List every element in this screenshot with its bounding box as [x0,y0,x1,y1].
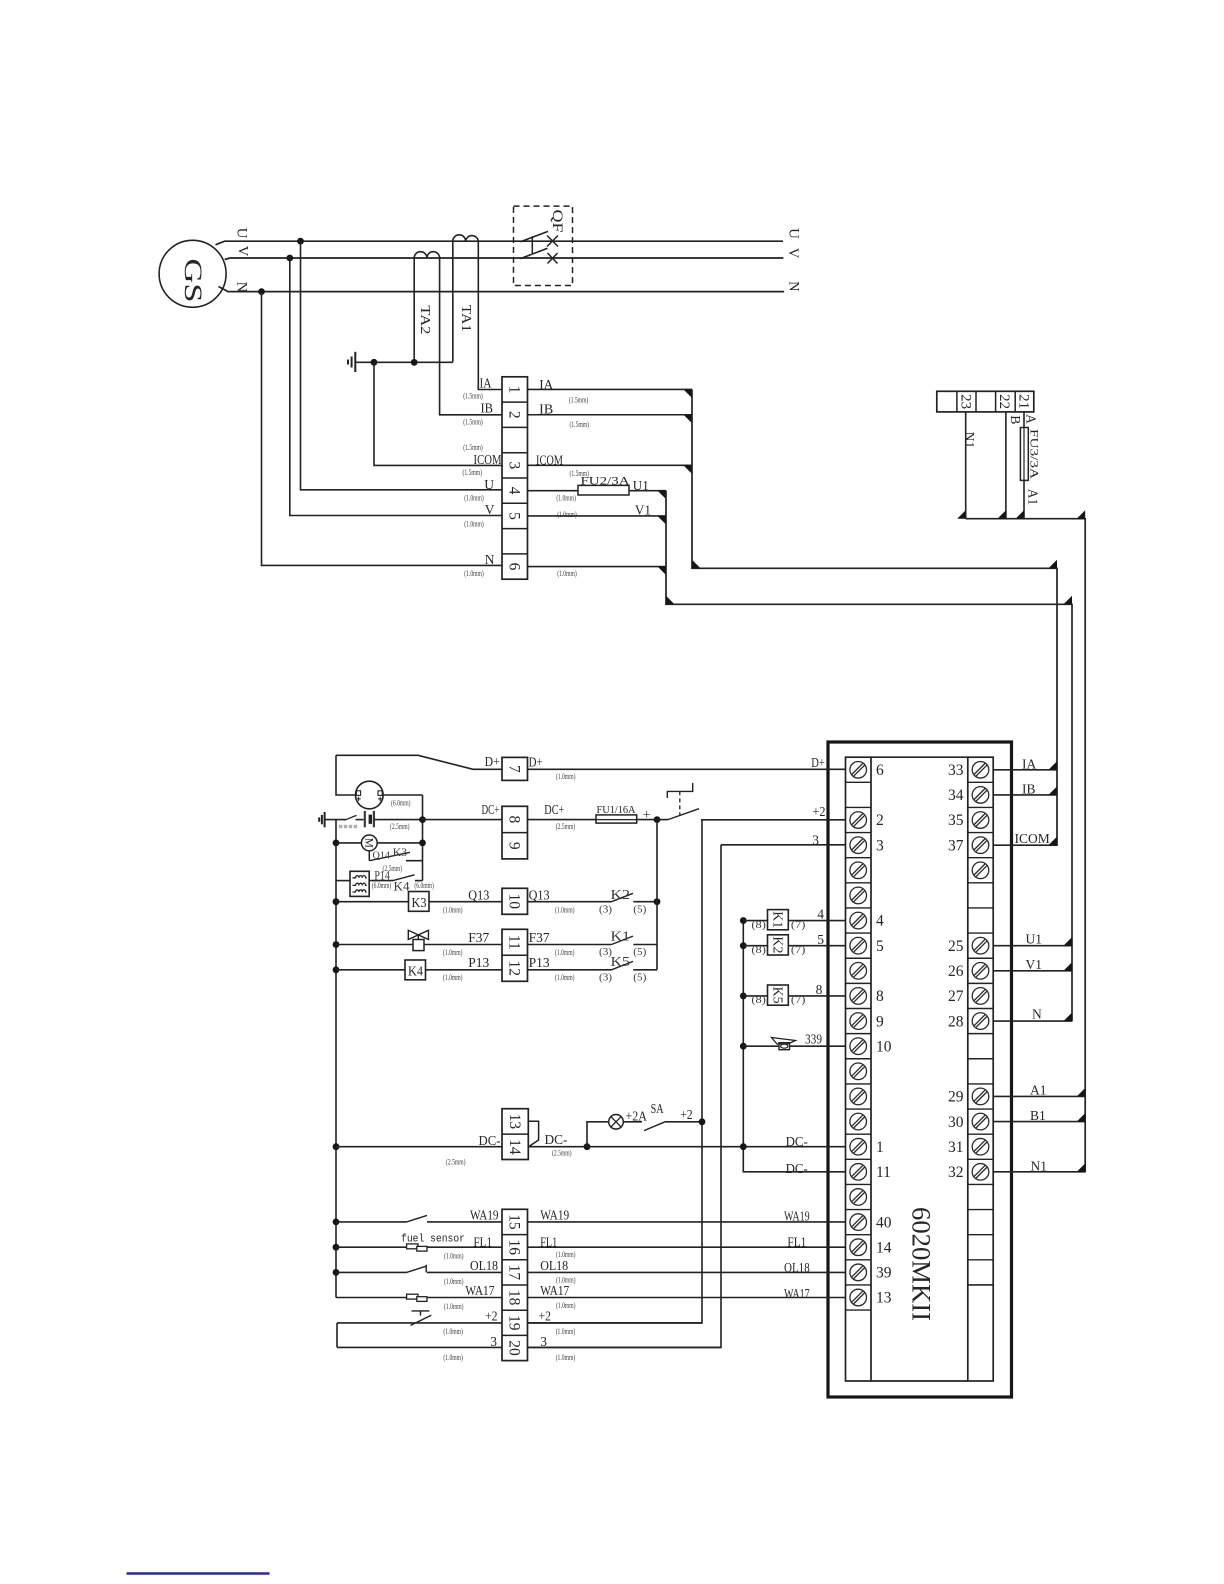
svg-text:(8): (8) [751,920,766,931]
bus +2 vertical drop [528,820,703,1323]
svg-text:OL18: OL18 [784,1260,810,1275]
svg-text:(1.0mm): (1.0mm) [444,1302,464,1311]
svg-text:U: U [785,228,801,239]
harness exit triangle IB [1049,786,1058,795]
svg-text:ICOM: ICOM [1015,831,1050,846]
wire switch to +2 node [701,819,846,821]
node N-tap junction [258,288,265,295]
wire DC+ to block 8 [423,819,503,821]
oil pressure switch OL18 blade [407,1266,427,1272]
node V-tap junction [286,255,293,262]
svg-text:IB: IB [481,401,494,416]
harness join triangle IB [684,415,693,424]
wire CT common ground bus [355,361,453,363]
wire fuse to corner A1 [1023,480,1025,518]
svg-text:18: 18 [506,1290,523,1306]
svg-text:D+: D+ [811,755,825,770]
svg-text:9: 9 [506,842,523,850]
svg-text:6: 6 [506,563,523,571]
controller terminal strip left column [846,757,872,1381]
terminal strip 21-23 [937,391,1034,412]
wire N to harness [528,566,667,568]
svg-text:K2: K2 [770,936,785,953]
svg-text:27: 27 [948,988,964,1005]
controller screw terminal 39 [850,1264,867,1281]
svg-text:OL18: OL18 [540,1258,568,1273]
wire K4 coil to block 12 [426,969,503,971]
contact K2 blade [612,893,634,901]
svg-text:F37: F37 [468,930,489,945]
wire to relay K3 coil [336,901,409,903]
svg-text:+2: +2 [680,1107,693,1122]
svg-text:FL1: FL1 [540,1234,557,1249]
wire switch to battery [356,819,364,821]
svg-text:7: 7 [506,765,523,773]
wire block 12 to contact K5 [528,969,612,971]
controller screw terminal 30 [972,1113,989,1130]
fuse FU2/3A [578,485,629,495]
harness exit triangle V1 [1064,962,1073,971]
svg-text:(8): (8) [751,995,766,1006]
wire DC- from block [528,1146,845,1148]
svg-text:10: 10 [506,894,523,910]
wire lamp to switch SA [623,1121,642,1123]
harness join triangle ICOM [684,465,693,474]
svg-text:3: 3 [490,1334,497,1349]
svg-text:WA19: WA19 [784,1209,810,1224]
generator GS [159,240,226,307]
wire V1 to harness [528,515,667,517]
svg-text:1: 1 [506,386,523,394]
contact K1 blade [612,936,634,944]
controller screw terminal 4 [850,912,867,929]
wire relay K5 to controller [788,995,845,997]
wire WA19 block to controller 40 [528,1221,846,1223]
svg-text:29: 29 [948,1089,964,1106]
bus DC- relay coils vertical [743,921,845,1172]
svg-text:U: U [233,228,249,239]
svg-text:K1: K1 [611,928,631,943]
svg-text:30: 30 [948,1114,964,1131]
switch SA blade [644,1122,665,1131]
fuse FU1/16A [596,815,637,823]
wire ICOM to harness [528,464,693,466]
svg-text:U: U [484,477,494,492]
controller screw terminal 35 [972,812,989,829]
ground symbol CT common [354,352,356,372]
emergency stop actuator [667,783,692,798]
node +2 bus junction [699,1118,706,1125]
wire B from terminal 22 [1005,412,1007,519]
harness corner triangle [692,560,701,569]
svg-text:(1.0mm): (1.0mm) [556,1301,576,1310]
harness IA/IB/ICOM run [692,389,1057,845]
wire DC+ to fuse FU1 [528,819,597,821]
node OL18 row left [333,1269,340,1276]
svg-text:IA: IA [1022,756,1036,771]
wire contact K4 to battery drop [415,880,423,882]
wire block 11 to contact K1 [528,944,612,946]
controller screw terminal 28 [972,1013,989,1030]
node battery positive junction [419,816,426,823]
terminal block 11-12 [502,929,528,981]
svg-text:ICOM: ICOM [536,452,563,467]
fuel level sender symbol [407,1244,418,1249]
controller screw terminal 3 [850,837,867,854]
svg-text:FU1/16A: FU1/16A [597,805,636,816]
svg-text:K3: K3 [393,845,408,859]
svg-text:U1: U1 [1026,932,1043,947]
ground symbol battery negative [324,812,326,827]
svg-text:(6.0mm): (6.0mm) [372,881,392,890]
svg-text:28: 28 [948,1013,964,1030]
terminal block 8-9 [502,806,528,859]
svg-text:DC+: DC+ [544,802,564,817]
svg-text:(5): (5) [633,904,647,915]
wire to starter motor [336,842,362,844]
node DC- relay bus junction [740,1143,747,1150]
svg-text:22: 22 [996,394,1012,409]
wire terminal 13 jumper to DC- [528,1121,538,1146]
wire relay K1 to controller [788,920,845,922]
svg-text:14: 14 [506,1139,523,1155]
wire battery positive to node [375,819,423,821]
svg-text:(1.0mm): (1.0mm) [443,973,463,982]
svg-text:N: N [785,281,801,292]
controller screw terminal 14 [850,1239,867,1256]
svg-text:IB: IB [1022,782,1036,797]
svg-text:(2.5mm): (2.5mm) [390,822,410,831]
wire K3 coil to block 10 [429,901,502,903]
terminal block 13-14 [502,1109,528,1160]
controller screw terminal (unlabeled left row 8) [850,963,867,980]
temperature switch WA19 blade [407,1215,427,1222]
svg-text:Q13: Q13 [468,887,489,902]
svg-text:FL1: FL1 [474,1234,493,1249]
node ICOM tap [371,359,378,366]
svg-text:V: V [234,246,250,257]
battery disconnect switch blade [345,815,357,820]
fuel solenoid valve bowtie [408,930,428,939]
relay coil K2 [768,935,789,955]
svg-text:5: 5 [876,938,884,955]
wire bus to relay K5 coil [743,995,767,997]
wire B1 controller to harness [993,1121,1085,1123]
node bus K1 row [740,917,747,924]
controller screw terminal (unlabeled left row 5) [850,887,867,904]
svg-text:V1: V1 [1026,957,1043,972]
bus + contacts vertical [656,820,658,970]
wire row 19-20 link [336,1323,338,1348]
wire A1 controller to harness [993,1095,1085,1097]
svg-text:21: 21 [1015,394,1031,409]
svg-text:DC+: DC+ [482,802,500,817]
svg-text:N1: N1 [1031,1158,1048,1173]
svg-text:35: 35 [948,812,964,829]
svg-text:33: 33 [948,762,964,779]
svg-text:3: 3 [876,837,884,854]
charging alternator circle [356,781,384,809]
pushbutton blade row 19 [411,1315,432,1325]
svg-text:(1.0mm): (1.0mm) [555,973,575,982]
node TA2 lead junction [411,359,418,366]
starter motor M [361,835,377,851]
svg-text:32: 32 [948,1164,964,1181]
svg-text:(1.0mm): (1.0mm) [444,1252,464,1261]
svg-text:(1.5mm): (1.5mm) [570,420,590,429]
svg-text:(1.0mm): (1.0mm) [555,948,575,957]
svg-text:+2: +2 [485,1309,498,1324]
wire motor to battery node [377,842,422,844]
wire bus to horn [743,1045,779,1047]
bus 3 vertical drop [528,845,722,1348]
contact K3 blade (Q14) [369,852,410,860]
wire WA17 row (bus end) [336,1297,502,1299]
controller left column cell dividers [846,781,872,783]
harness U1/V1/N run [666,491,1072,1022]
left common bus (engine body) [335,820,337,1298]
controller screw terminal 26 [972,963,989,980]
svg-text:SA: SA [651,1101,664,1116]
wire lamp riser [587,1122,609,1147]
svg-text:3: 3 [812,832,819,847]
svg-text:DC-: DC- [479,1133,501,1148]
controller 6020MKII outer box [828,742,1012,1397]
wire WA19 switch [336,1221,407,1223]
contact K4 blade [393,875,415,881]
node bus horn row [740,1043,747,1050]
contact K5 blade [612,961,634,969]
svg-text:11: 11 [876,1164,891,1181]
svg-text:8: 8 [506,816,523,824]
controller right column cell dividers [968,781,993,783]
controller screw terminal (unlabeled left row 17) [850,1189,867,1206]
wire OL18 switch [336,1271,407,1273]
controller screw terminal 32 [972,1164,989,1181]
wire U tap down to terminal 4 [262,241,503,565]
starter contact Q14/K3 stub [368,851,370,861]
battery GB plates [364,811,366,827]
relay coil K1 [768,910,789,930]
svg-text:5: 5 [506,512,523,520]
svg-text:2: 2 [876,812,884,829]
svg-text:20: 20 [506,1340,523,1356]
svg-text:339: 339 [805,1032,822,1047]
svg-text:D+: D+ [529,755,543,770]
svg-text:+: + [643,808,651,823]
wire fuel sensor left [336,1246,502,1248]
controller screw terminal 34 [972,787,989,804]
wire to relay K4 coil [336,969,405,971]
breaker QF pole 2 X contact [548,253,558,264]
svg-text:31: 31 [948,1139,964,1156]
wire +2 row 19 left with pushbutton [337,1322,502,1324]
svg-text:fuel sensor: fuel sensor [401,1234,465,1246]
node bus K5 row [740,993,747,1000]
wire alternator B+ to battery node [382,794,422,796]
controller screw terminal 9 [850,1013,867,1030]
svg-text:K2: K2 [611,887,631,902]
svg-text:(1.0mm): (1.0mm) [464,520,484,529]
node DC- left bus [333,1143,340,1150]
svg-text:(1.0mm): (1.0mm) [443,906,463,915]
svg-text:P13: P13 [468,955,489,970]
harness corner triangle [666,596,675,605]
relay coil K5 [768,985,789,1005]
node M row left [333,840,340,847]
relay coil K3 [409,892,430,912]
wire FL1 block to controller 14 [528,1246,846,1248]
wire 3 row 20 left [337,1346,502,1348]
controller screw terminal 1 [850,1138,867,1155]
svg-text:(3): (3) [599,904,613,915]
svg-text:IA: IA [480,376,492,391]
battery switch caption (Chinese) [339,825,342,828]
svg-text:23: 23 [957,394,973,409]
svg-text:40: 40 [876,1214,892,1231]
node DC- lamp tap [584,1143,591,1150]
node battery positive / motor [419,840,426,847]
svg-text:N: N [1032,1007,1042,1022]
wire block 10 to contact K2 [528,901,612,903]
svg-text:(6.0mm): (6.0mm) [414,881,434,890]
wire contact K2 to bus [633,901,657,903]
controller screw terminal 37 [972,837,989,854]
wire D+ to controller terminal 6 [528,768,846,770]
node WA19 row left [333,1219,340,1226]
svg-text:(1.0mm): (1.0mm) [556,772,576,781]
wire N1 controller to harness [993,1171,1085,1173]
svg-text:(1.5mm): (1.5mm) [463,392,483,401]
svg-text:(7): (7) [791,995,806,1006]
svg-text:(1.0mm): (1.0mm) [557,510,577,519]
wire battery positive drop [422,795,424,881]
svg-text:WA17: WA17 [540,1283,569,1298]
controller screw terminal (unlabeled right row 4) [972,862,989,879]
svg-text:DC-: DC- [545,1132,568,1147]
wire relay K2 to controller [788,945,845,947]
wire glow plugs right lead [369,880,393,882]
wire IB controller to harness [993,794,1057,796]
svg-text:13: 13 [876,1290,892,1307]
svg-text:P13: P13 [529,955,550,970]
wire WA17 block to controller 13 [528,1297,846,1299]
wire bus to relay K1 coil [743,920,767,922]
svg-text:(3): (3) [599,972,613,983]
svg-text:10: 10 [876,1038,892,1055]
svg-text:(1.0mm): (1.0mm) [556,1327,576,1336]
svg-text:N: N [485,552,495,567]
svg-text:A: A [1024,414,1039,424]
svg-text:WA19: WA19 [470,1208,499,1223]
node P13 row left [333,966,340,973]
svg-text:4: 4 [876,913,884,930]
svg-text:(1.0mm): (1.0mm) [556,1353,576,1362]
wire contact to battery drop [406,860,423,862]
node bus K2 row [740,942,747,949]
terminal block 10 [502,888,528,914]
svg-text:(1.0mm): (1.0mm) [557,569,577,578]
node FL1 row left [333,1244,340,1251]
controller screw terminal (unlabeled left row 12) [850,1063,867,1080]
harness exit triangle U1 [1064,937,1073,946]
controller screw terminal 13 [850,1289,867,1306]
wire IA controller to harness [993,769,1057,771]
svg-text:DC-: DC- [786,1134,809,1149]
harness exit triangle ICOM [1049,837,1058,846]
svg-text:(1.5mm): (1.5mm) [463,443,483,452]
svg-text:1: 1 [876,1139,884,1156]
strip top connector line [871,756,968,758]
current transformer TA1 [453,235,479,241]
horn 339 [779,1043,790,1050]
svg-text:DC-: DC- [786,1161,809,1176]
svg-text:15: 15 [506,1214,523,1230]
svg-text:OL18: OL18 [470,1258,498,1273]
svg-text:WA17: WA17 [465,1283,494,1298]
svg-text:9: 9 [876,1013,884,1030]
svg-text:WA19: WA19 [540,1208,569,1223]
node K2 bus junction [654,898,661,905]
controller screw terminal 40 [850,1214,867,1231]
wire V1 controller to harness [993,970,1072,972]
svg-text:12: 12 [506,961,523,977]
node + junction [654,816,661,823]
controller screw terminal 33 [972,761,989,778]
wire V phase from generator [225,258,784,260]
svg-text:V: V [485,502,495,517]
wire fuse to harness U1 [629,490,666,492]
wire DC- to block 14 [336,1146,502,1148]
fuel valve actuator box [413,940,424,951]
wire bus to relay K2 coil [743,945,767,947]
terminal block 15-20 [502,1209,528,1360]
circuit breaker QF dashed enclosure [514,206,573,285]
fuse FU3/3A vertical [1020,428,1028,481]
svg-text:U1: U1 [633,478,649,493]
svg-text:17: 17 [506,1265,523,1281]
controller screw terminal 6 [850,761,867,778]
svg-text:11: 11 [506,935,523,950]
svg-text:(2.5mm): (2.5mm) [556,822,576,831]
harness corner triangle [1049,560,1058,569]
svg-text:K5: K5 [770,987,785,1004]
wire ICOM controller to harness [993,844,1057,846]
wire U1 controller to harness [993,945,1072,947]
controller screw terminal (unlabeled left row 13) [850,1088,867,1105]
svg-text:WA17: WA17 [784,1286,810,1301]
wire OL18 block to controller 39 [528,1271,846,1273]
wire charge alternator D+ lead [336,755,356,795]
svg-text:N1: N1 [962,432,977,449]
wire 3 from bus to terminal 3 [721,844,846,846]
wire battery negative [325,819,346,821]
svg-text:26: 26 [948,963,964,980]
svg-text:(1.0mm): (1.0mm) [556,1276,576,1285]
svg-text:(8): (8) [751,945,766,956]
svg-text:(1.0mm): (1.0mm) [464,569,484,578]
harness join triangle U1 [658,491,667,500]
wire N phase from generator [219,287,785,292]
svg-text:(5): (5) [633,947,647,958]
harness join triangle V1 [658,516,667,525]
controller terminal strip right column [968,757,993,1381]
corner triangle A1 [1016,510,1025,519]
svg-text:3: 3 [540,1334,547,1349]
svg-text:FU2/3A: FU2/3A [581,475,631,487]
svg-text:(1.0mm): (1.0mm) [443,948,463,957]
svg-text:4: 4 [506,487,523,495]
